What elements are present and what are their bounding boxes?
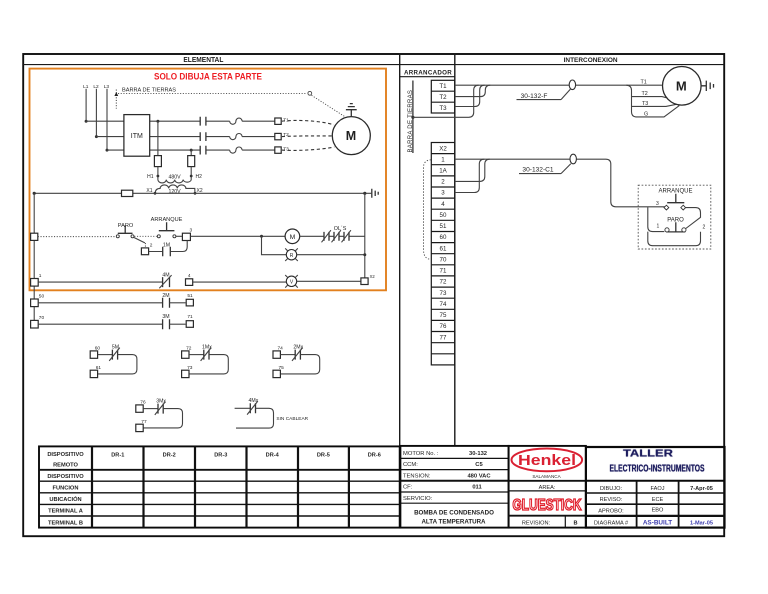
node X1 — [154, 192, 157, 195]
svg-text:INTERCONEXION: INTERCONEXION — [564, 57, 618, 64]
svg-text:DIAGRAMA #: DIAGRAMA # — [594, 520, 629, 526]
dashed lead T1 to motor — [282, 120, 334, 124]
svg-text:M: M — [346, 129, 356, 143]
svg-text:60: 60 — [440, 234, 447, 241]
svg-text:4: 4 — [441, 201, 445, 208]
svg-text:REVISO:: REVISO: — [600, 497, 623, 503]
logo Henkel ellipse — [512, 449, 583, 472]
svg-text:DR-4: DR-4 — [266, 452, 280, 458]
fuse H1 tap node — [156, 120, 159, 123]
contactor M contact phase A — [200, 117, 206, 126]
svg-text:T1: T1 — [641, 80, 647, 86]
svg-text:T2: T2 — [642, 91, 648, 97]
svg-text:1: 1 — [441, 156, 445, 163]
left bus vertical — [33, 193, 35, 320]
terminal square control-left — [31, 233, 38, 240]
node L2 — [95, 135, 98, 138]
junction on barra — [411, 116, 414, 119]
svg-text:30-132-C1: 30-132-C1 — [522, 167, 553, 174]
auxiliary contact 1M — [163, 247, 171, 256]
svg-text:AS-BUILT: AS-BUILT — [643, 519, 672, 526]
terminal square 70 — [31, 320, 39, 328]
pushbutton ARRANQUE (station NO) — [667, 194, 684, 203]
wire ARRANQUE right to seal — [685, 208, 700, 229]
wire phase B — [96, 136, 274, 138]
loop wire — [98, 355, 137, 374]
svg-text:EBO: EBO — [652, 508, 664, 514]
fuse H1 — [154, 156, 161, 167]
wire row50 — [38, 302, 162, 304]
node R-bus — [363, 253, 366, 256]
pushbutton PARO (NC) — [118, 226, 133, 234]
120V rail — [34, 192, 371, 194]
overload heater phase A — [230, 118, 242, 124]
svg-text:120V: 120V — [168, 189, 181, 195]
svg-text:5M: 5M — [112, 344, 119, 350]
terminal square 76 — [136, 405, 143, 412]
divider arrancador/interconexion — [454, 54, 456, 447]
wire T2 joins cable — [455, 85, 491, 96]
henkel block — [509, 446, 586, 528]
svg-text:DISPOSITIVO: DISPOSITIVO — [47, 452, 84, 458]
terminal square T1 — [275, 118, 281, 124]
svg-text:2: 2 — [150, 243, 153, 249]
wire bottom loop — [648, 232, 701, 246]
svg-text:T1: T1 — [439, 83, 447, 90]
terminal square 3 — [182, 233, 190, 240]
svg-text:7-Apr-05: 7-Apr-05 — [690, 486, 713, 492]
dotted wire to PARO — [38, 236, 116, 238]
title block taller electrico — [586, 447, 725, 528]
overload heater phase B — [230, 134, 242, 140]
svg-text:Henkel: Henkel — [518, 452, 576, 469]
svg-text:ARRANCADOR: ARRANCADOR — [404, 69, 452, 76]
svg-text:3Mx: 3Mx — [156, 398, 166, 404]
barra leader dotted vertical — [115, 90, 117, 109]
svg-text:ECE: ECE — [652, 497, 664, 503]
contact 2Mx (NC) — [295, 350, 300, 360]
wire 2 joins cable C1 — [455, 159, 490, 181]
wire down to R lamp — [262, 236, 287, 254]
wire L1 drop — [85, 89, 87, 121]
svg-text:DISPOSITIVO: DISPOSITIVO — [47, 474, 84, 480]
fuse H2 tap node — [190, 149, 193, 152]
pilot lamp R — [285, 248, 298, 261]
line under ARRANCADOR — [400, 76, 455, 78]
svg-text:3: 3 — [441, 190, 445, 197]
ground symbol above motor — [346, 104, 357, 117]
dotted wire PARO to ARRANQUE — [134, 235, 157, 237]
wire — [98, 354, 113, 356]
svg-text:T2: T2 — [283, 132, 289, 138]
contact 4Mx (NC) — [250, 403, 255, 413]
svg-text:X2: X2 — [439, 145, 447, 152]
svg-text:DR-5: DR-5 — [317, 452, 330, 458]
svg-text:R: R — [290, 253, 294, 259]
leader to ellipse F — [561, 89, 570, 99]
contact 4M (NC) — [163, 277, 170, 287]
svg-text:H1: H1 — [147, 174, 154, 180]
header band line — [22, 64, 724, 66]
svg-text:REMOTO: REMOTO — [53, 463, 78, 469]
loop wire — [143, 409, 182, 428]
svg-text:51: 51 — [187, 293, 193, 299]
svg-text:FUNCION: FUNCION — [53, 486, 79, 492]
motor M (elemental) — [332, 117, 370, 155]
svg-text:DR-6: DR-6 — [368, 452, 381, 458]
svg-text:1M: 1M — [163, 242, 170, 248]
svg-text:76: 76 — [440, 323, 447, 330]
contact 5M (NC) — [112, 350, 117, 360]
sheet border frame — [23, 54, 724, 536]
svg-text:77: 77 — [440, 334, 447, 341]
barra end circle — [308, 91, 312, 95]
barra dotted line to motor — [118, 92, 307, 94]
svg-text:2Mx: 2Mx — [293, 344, 303, 350]
svg-text:ALTA TEMPERATURA: ALTA TEMPERATURA — [421, 519, 486, 526]
wire 3M to 71 — [170, 323, 186, 325]
pushbutton PARO (station NC) — [666, 222, 685, 232]
svg-text:DR-2: DR-2 — [163, 452, 176, 458]
wire incoming branch down — [648, 207, 665, 231]
barra leader arrow — [114, 92, 118, 96]
svg-text:CCM:: CCM: — [403, 462, 418, 468]
terminal square 71 — [186, 321, 193, 328]
terminal square 2 — [141, 248, 148, 255]
svg-text:G: G — [644, 111, 648, 117]
right bus vertical — [364, 193, 366, 278]
svg-text:011: 011 — [472, 485, 482, 491]
svg-text:3: 3 — [656, 201, 659, 207]
wire coil M to OL — [300, 235, 365, 237]
svg-text:50: 50 — [39, 294, 45, 300]
node H1 — [157, 175, 160, 178]
svg-text:70: 70 — [440, 257, 447, 264]
contact 1Mx (NC) — [204, 350, 209, 360]
svg-text:X2: X2 — [370, 274, 376, 279]
svg-text:4M: 4M — [162, 273, 169, 279]
terminal square 72 — [182, 351, 189, 358]
svg-text:4Mx: 4Mx — [248, 398, 258, 404]
orange highlight box SOLO DIBUJA — [30, 69, 387, 291]
terminal square 1 — [31, 279, 39, 287]
svg-text:REVISION:: REVISION: — [522, 520, 551, 526]
overload contacts OL'S — [324, 232, 349, 241]
wire to fuse H1 — [157, 121, 159, 155]
svg-text:DR-1: DR-1 — [111, 452, 124, 458]
leader to ellipse C1 — [561, 164, 571, 174]
wire cable C1 from terminal 1 — [455, 159, 667, 207]
node branch to R — [260, 235, 263, 238]
svg-text:ARRANQUE: ARRANQUE — [151, 217, 183, 223]
svg-text:SERVICIO:: SERVICIO: — [403, 496, 433, 502]
wire terminal 3 to coil M — [190, 235, 285, 237]
wire T1 to cable — [455, 84, 662, 86]
terminal square 77 — [136, 424, 143, 431]
transformer secondary winding 120V — [155, 185, 195, 193]
dotted drop to terminal 2 — [144, 243, 146, 248]
wire — [235, 407, 251, 409]
contact 2M — [163, 298, 170, 308]
wire row70 — [38, 323, 162, 325]
wire 2M to 51 — [170, 302, 186, 304]
svg-text:ELECTRICO-INSTRUMENTOS: ELECTRICO-INSTRUMENTOS — [610, 464, 705, 475]
wire G from barra joins cable — [413, 85, 479, 117]
motor M (interconexion) — [663, 67, 702, 106]
svg-text:71: 71 — [440, 268, 447, 275]
wire R to bus — [297, 254, 365, 256]
wire — [143, 408, 158, 410]
svg-text:H2: H2 — [196, 174, 203, 180]
contactor M contact phase B — [200, 132, 206, 141]
svg-text:DR-3: DR-3 — [214, 452, 227, 458]
svg-text:CF:: CF: — [403, 485, 413, 491]
cable marker ellipse C1 — [570, 154, 576, 164]
svg-text:74: 74 — [440, 301, 447, 308]
svg-text:M: M — [676, 79, 687, 94]
svg-text:B: B — [573, 520, 577, 526]
svg-text:DIBUJO:: DIBUJO: — [600, 486, 623, 492]
svg-text:TERMINAL B: TERMINAL B — [48, 520, 83, 526]
seal-in branch wire from terminal 2 — [149, 241, 188, 252]
svg-text:ELEMENTAL: ELEMENTAL — [183, 57, 224, 64]
svg-text:ARRANQUE: ARRANQUE — [658, 189, 692, 195]
contactor M contact phase C — [200, 146, 206, 155]
terminal strip X2..77 — [431, 143, 455, 365]
terminal square 74 — [273, 351, 280, 358]
svg-text:TALLER: TALLER — [623, 449, 674, 460]
svg-text:C5: C5 — [475, 462, 483, 468]
terminal square 50 — [31, 299, 39, 307]
node L3 — [106, 149, 109, 152]
contact 3Mx (NC) — [158, 404, 163, 414]
svg-text:TERMINAL A: TERMINAL A — [48, 509, 83, 515]
svg-text:1Mx: 1Mx — [202, 344, 212, 350]
node X2 — [194, 192, 197, 195]
wire phase C — [107, 149, 275, 151]
node rail right — [363, 192, 366, 195]
wire fuse H1 to xfmr — [157, 167, 159, 180]
svg-text:1A: 1A — [439, 168, 447, 175]
svg-text:M: M — [290, 234, 296, 241]
wire phase A — [86, 120, 275, 122]
svg-text:MOTOR No. :: MOTOR No. : — [403, 451, 439, 457]
svg-text:BARRA DE TIERRAS: BARRA DE TIERRAS — [122, 88, 176, 94]
terminal square T3 — [275, 147, 281, 153]
svg-text:FAOJ: FAOJ — [651, 486, 665, 492]
svg-text:30-132-F: 30-132-F — [521, 93, 548, 100]
remote station dashed box — [638, 185, 711, 249]
wire T3 branch to motor — [632, 104, 678, 106]
pushbutton ARRANQUE (NO) — [159, 222, 175, 230]
svg-text:APROBO:: APROBO: — [598, 509, 624, 515]
pilot lamp V — [285, 275, 298, 288]
wire T3 joins cable — [455, 85, 485, 106]
diagonal branch to terminal 2 — [134, 238, 145, 243]
terminal square T2 — [275, 133, 281, 139]
svg-text:SIN CABLEAR: SIN CABLEAR — [276, 416, 308, 422]
wire fuse H2 to xfmr — [190, 167, 192, 180]
svg-text:1: 1 — [657, 223, 660, 229]
svg-text:BOMBA DE CONDENSADO: BOMBA DE CONDENSADO — [414, 509, 494, 516]
wire row1 left — [38, 281, 162, 283]
bottom band line — [39, 527, 725, 529]
svg-text:71: 71 — [187, 314, 193, 320]
wire L2 drop — [95, 89, 97, 137]
fuse H2 — [188, 156, 195, 167]
wire ARRANQUE to terminal 3 — [176, 235, 182, 237]
svg-text:75: 75 — [440, 312, 447, 319]
wire — [189, 354, 204, 356]
svg-text:70: 70 — [39, 315, 45, 321]
svg-text:1-Mar-05: 1-Mar-05 — [690, 520, 713, 526]
cable marker ellipse F — [569, 80, 575, 90]
svg-text:UBICACIÓN: UBICACIÓN — [49, 495, 81, 503]
node rail left — [33, 192, 36, 195]
motor fan-out drop — [626, 85, 679, 117]
svg-text:2: 2 — [441, 179, 445, 186]
loop wire — [189, 355, 228, 374]
svg-text:73: 73 — [440, 290, 447, 297]
svg-text:480 VAC: 480 VAC — [467, 473, 491, 479]
svg-text:2M: 2M — [162, 293, 169, 299]
svg-text:T2: T2 — [439, 94, 447, 101]
wire to fuse H2 — [190, 150, 192, 156]
svg-text:T3: T3 — [439, 105, 447, 112]
svg-text:SOLO DIBUJA ESTA PARTE: SOLO DIBUJA ESTA PARTE — [154, 71, 262, 81]
svg-text:ITM: ITM — [131, 133, 143, 140]
svg-text:T3: T3 — [283, 146, 289, 152]
wire 4 to lamp V — [193, 281, 287, 283]
dashed lead T2 to motor — [282, 135, 333, 138]
motor terminal connector — [701, 81, 713, 91]
terminal square 75 — [273, 370, 280, 377]
barra de tierras bus line — [412, 81, 414, 154]
svg-text:30-132: 30-132 — [469, 451, 487, 457]
svg-text:GLUESTICK: GLUESTICK — [513, 497, 582, 514]
barra dotted diagonal to motor — [312, 95, 345, 116]
wire V to X2 — [297, 280, 361, 282]
svg-text:50: 50 — [440, 212, 447, 219]
breaker ITM — [124, 115, 150, 157]
svg-text:72: 72 — [440, 279, 447, 286]
svg-text:TENSION:: TENSION: — [403, 473, 431, 479]
dashed brace pointing at cells 1..70 — [424, 160, 432, 259]
terminal square 60 — [90, 351, 97, 358]
terminal square 4 — [186, 279, 193, 286]
rail end connector — [372, 189, 378, 198]
svg-text:SALAMANCA: SALAMANCA — [532, 474, 561, 479]
terminal square 61 — [90, 370, 97, 377]
wire L3 drop — [106, 89, 108, 150]
coil M — [285, 229, 300, 244]
wire T2 branch to motor — [632, 97, 673, 100]
wire — [280, 354, 295, 356]
svg-text:2: 2 — [703, 225, 706, 231]
node L1 — [85, 120, 88, 123]
transformer primary winding 480V — [158, 180, 191, 183]
svg-text:AREA:: AREA: — [539, 485, 556, 491]
terminal square X2 — [361, 278, 368, 285]
svg-text:3M: 3M — [162, 314, 169, 320]
svg-text:51: 51 — [440, 223, 447, 230]
dashed lead T3 to motor — [282, 147, 334, 150]
svg-text:1: 1 — [39, 273, 42, 279]
overload heater phase C — [230, 147, 242, 153]
loop wire — [236, 408, 274, 428]
divider elemental/arrancador — [399, 54, 401, 528]
terminal block T1-T3 box — [431, 80, 455, 113]
node H2 — [190, 175, 193, 178]
wire 3 joins cable C1 — [455, 159, 485, 192]
motor data table — [400, 446, 508, 528]
left table DISPOSITIVO REMOTO — [39, 446, 400, 527]
svg-text:T3: T3 — [642, 101, 648, 107]
contact 3M — [163, 319, 170, 329]
svg-text:61: 61 — [440, 245, 447, 252]
terminal square 73 — [182, 370, 189, 377]
loop wire — [280, 355, 319, 374]
rail fuse — [122, 190, 133, 196]
terminal square 51 — [186, 299, 193, 306]
